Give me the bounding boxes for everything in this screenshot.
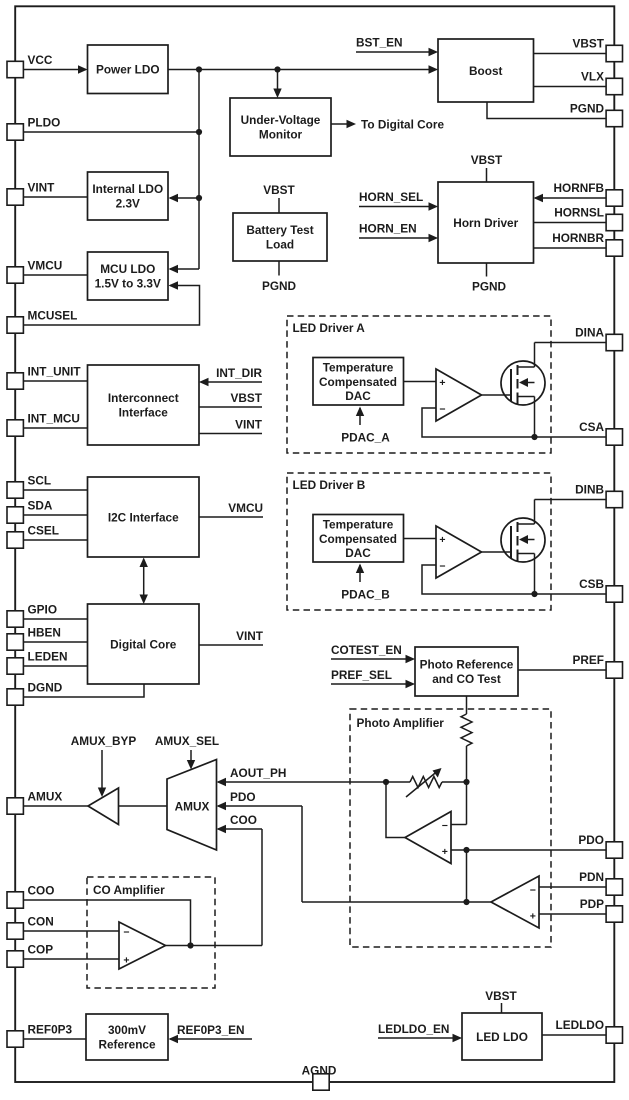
- svg-text:PLDO: PLDO: [28, 116, 61, 130]
- svg-text:−: −: [439, 403, 445, 415]
- svg-text:Digital Core: Digital Core: [110, 637, 177, 651]
- svg-text:CSEL: CSEL: [28, 524, 59, 538]
- svg-text:VINT: VINT: [28, 181, 56, 195]
- svg-text:PDP: PDP: [580, 897, 604, 911]
- svg-text:Photo Amplifier: Photo Amplifier: [357, 716, 445, 730]
- svg-text:Interconnect: Interconnect: [108, 391, 179, 405]
- svg-text:PDAC_B: PDAC_B: [341, 588, 390, 602]
- svg-text:Photo Reference: Photo Reference: [420, 658, 514, 672]
- svg-text:Compensated: Compensated: [319, 532, 397, 546]
- svg-text:300mV: 300mV: [108, 1023, 146, 1037]
- svg-text:−: −: [442, 820, 448, 832]
- svg-text:SCL: SCL: [28, 474, 52, 488]
- svg-text:Battery Test: Battery Test: [246, 223, 313, 237]
- svg-text:DAC: DAC: [345, 546, 371, 560]
- svg-text:CSB: CSB: [579, 577, 604, 591]
- svg-text:COO: COO: [230, 813, 257, 827]
- svg-text:1.5V to 3.3V: 1.5V to 3.3V: [95, 276, 161, 290]
- svg-text:PDN: PDN: [579, 870, 604, 884]
- svg-text:and CO Test: and CO Test: [432, 672, 501, 686]
- svg-text:VLX: VLX: [581, 70, 604, 84]
- svg-text:DINB: DINB: [575, 483, 604, 497]
- svg-text:MCU LDO: MCU LDO: [100, 262, 155, 276]
- svg-text:HORNSL: HORNSL: [554, 206, 604, 220]
- svg-text:Load: Load: [266, 237, 294, 251]
- svg-text:HORNBR: HORNBR: [552, 231, 604, 245]
- svg-text:VMCU: VMCU: [28, 259, 63, 273]
- svg-text:REF0P3_EN: REF0P3_EN: [177, 1023, 245, 1037]
- svg-text:PREF_SEL: PREF_SEL: [331, 668, 392, 682]
- svg-text:AOUT_PH: AOUT_PH: [230, 766, 286, 780]
- svg-text:LED Driver A: LED Driver A: [293, 321, 366, 335]
- svg-text:BST_EN: BST_EN: [356, 36, 403, 50]
- svg-text:Boost: Boost: [469, 64, 502, 78]
- svg-text:PGND: PGND: [472, 280, 507, 294]
- svg-text:VINT: VINT: [236, 629, 264, 643]
- svg-text:LEDLDO_EN: LEDLDO_EN: [378, 1022, 449, 1036]
- svg-text:VBST: VBST: [231, 391, 263, 405]
- svg-text:+: +: [439, 534, 445, 546]
- svg-text:COP: COP: [28, 943, 54, 957]
- svg-text:LEDLDO: LEDLDO: [556, 1018, 605, 1032]
- svg-text:HBEN: HBEN: [28, 626, 61, 640]
- svg-text:VINT: VINT: [235, 418, 263, 432]
- svg-text:AMUX: AMUX: [28, 790, 63, 804]
- svg-text:COTEST_EN: COTEST_EN: [331, 643, 402, 657]
- svg-text:VBST: VBST: [263, 183, 295, 197]
- svg-text:VBST: VBST: [471, 153, 503, 167]
- svg-text:Internal LDO: Internal LDO: [92, 182, 163, 196]
- svg-text:MCUSEL: MCUSEL: [28, 309, 78, 323]
- svg-text:HORNFB: HORNFB: [554, 181, 604, 195]
- svg-text:PGND: PGND: [570, 102, 605, 116]
- svg-text:VCC: VCC: [28, 53, 53, 67]
- svg-text:−: −: [123, 927, 129, 939]
- svg-text:Temperature: Temperature: [323, 361, 394, 375]
- svg-text:+: +: [530, 911, 536, 923]
- svg-text:LEDEN: LEDEN: [28, 650, 68, 664]
- svg-text:DAC: DAC: [345, 389, 371, 403]
- svg-text:DINA: DINA: [575, 326, 604, 340]
- svg-text:PGND: PGND: [262, 279, 297, 293]
- svg-text:HORN_EN: HORN_EN: [359, 222, 417, 236]
- svg-text:REF0P3: REF0P3: [28, 1023, 73, 1037]
- svg-text:HORN_SEL: HORN_SEL: [359, 190, 423, 204]
- svg-text:VBST: VBST: [485, 989, 517, 1003]
- svg-text:+: +: [442, 846, 448, 858]
- svg-text:COO: COO: [28, 884, 55, 898]
- svg-text:CO Amplifier: CO Amplifier: [93, 883, 165, 897]
- svg-text:INT_UNIT: INT_UNIT: [28, 365, 82, 379]
- svg-text:SDA: SDA: [28, 499, 53, 513]
- svg-text:GPIO: GPIO: [28, 603, 58, 617]
- svg-text:LED LDO: LED LDO: [476, 1030, 528, 1044]
- svg-text:CON: CON: [28, 915, 54, 929]
- svg-text:2.3V: 2.3V: [116, 196, 140, 210]
- svg-text:Monitor: Monitor: [259, 127, 303, 141]
- svg-text:Horn Driver: Horn Driver: [453, 216, 518, 230]
- svg-text:AMUX: AMUX: [175, 800, 210, 814]
- svg-text:PDO: PDO: [230, 790, 256, 804]
- svg-text:VMCU: VMCU: [228, 501, 263, 515]
- svg-text:Temperature: Temperature: [323, 518, 394, 532]
- svg-text:LED Driver B: LED Driver B: [293, 478, 366, 492]
- svg-text:I2C Interface: I2C Interface: [108, 510, 179, 524]
- svg-text:+: +: [123, 955, 129, 967]
- svg-text:PDO: PDO: [578, 833, 604, 847]
- svg-text:Power LDO: Power LDO: [96, 63, 160, 77]
- svg-text:+: +: [439, 377, 445, 389]
- svg-text:INT_MCU: INT_MCU: [28, 412, 80, 426]
- svg-text:−: −: [439, 560, 445, 572]
- svg-text:Under-Voltage: Under-Voltage: [241, 113, 321, 127]
- svg-text:DGND: DGND: [28, 681, 63, 695]
- svg-text:Compensated: Compensated: [319, 375, 397, 389]
- svg-text:PREF: PREF: [573, 653, 604, 667]
- svg-text:CSA: CSA: [579, 420, 604, 434]
- svg-text:Reference: Reference: [98, 1037, 155, 1051]
- svg-text:INT_DIR: INT_DIR: [216, 366, 262, 380]
- svg-text:To Digital Core: To Digital Core: [361, 118, 444, 132]
- svg-text:AMUX_BYP: AMUX_BYP: [71, 734, 137, 748]
- svg-text:PDAC_A: PDAC_A: [341, 431, 390, 445]
- svg-text:VBST: VBST: [573, 37, 605, 51]
- svg-text:Interface: Interface: [119, 405, 169, 419]
- svg-text:AMUX_SEL: AMUX_SEL: [155, 734, 219, 748]
- svg-text:−: −: [530, 885, 536, 897]
